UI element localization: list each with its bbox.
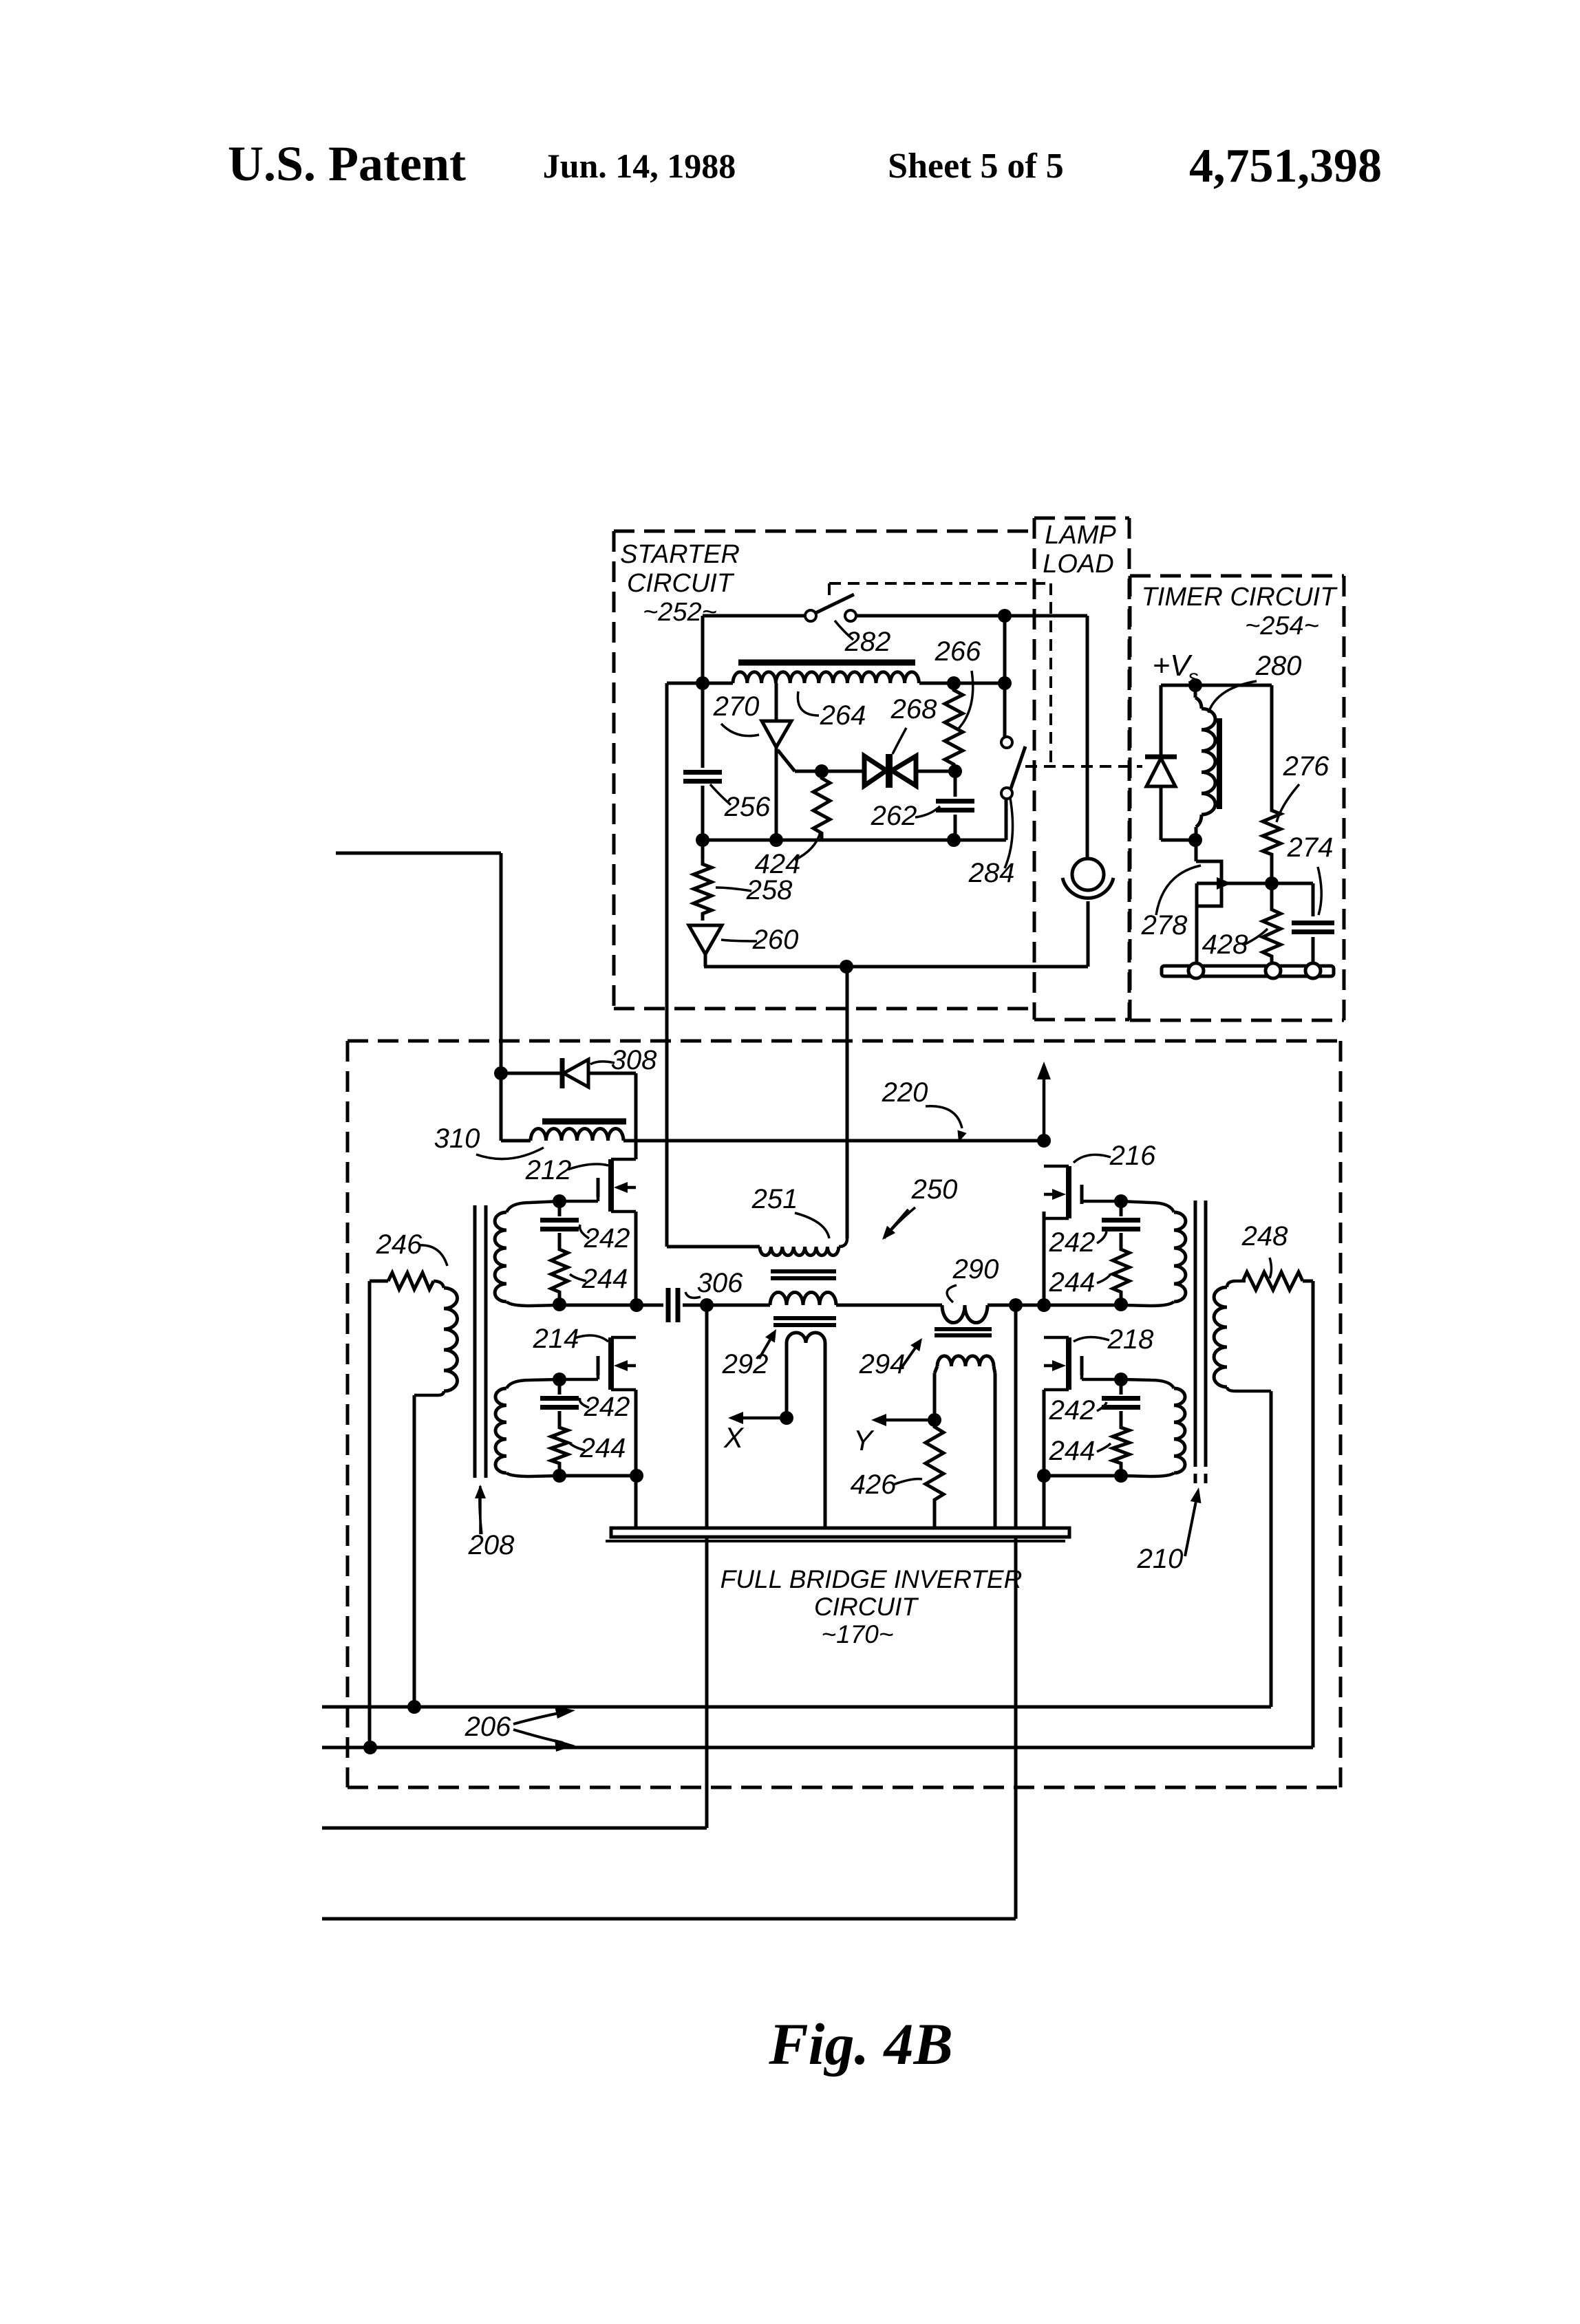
svg-text:STARTER: STARTER [620, 540, 740, 569]
svg-text:~254~: ~254~ [1245, 612, 1319, 641]
svg-text:310: 310 [434, 1123, 480, 1154]
svg-text:214: 214 [533, 1324, 579, 1354]
svg-text:250: 250 [911, 1174, 958, 1205]
svg-text:251: 251 [751, 1184, 798, 1214]
svg-text:~252~: ~252~ [643, 598, 717, 627]
svg-text:4,751,398: 4,751,398 [1189, 140, 1382, 193]
svg-text:258: 258 [746, 875, 793, 905]
svg-text:Fig. 4B: Fig. 4B [768, 2011, 953, 2077]
svg-text:FULL BRIDGE INVERTER: FULL BRIDGE INVERTER [720, 1565, 1023, 1593]
svg-text:+V: +V [1152, 649, 1193, 682]
svg-text:216: 216 [1109, 1141, 1156, 1171]
svg-text:264: 264 [820, 700, 866, 731]
svg-text:280: 280 [1255, 651, 1302, 681]
svg-text:Y: Y [853, 1424, 875, 1456]
svg-text:268: 268 [890, 694, 937, 724]
svg-text:212: 212 [525, 1155, 572, 1185]
svg-text:428: 428 [1202, 929, 1248, 960]
svg-text:210: 210 [1137, 1544, 1184, 1574]
svg-text:276: 276 [1283, 751, 1330, 782]
svg-text:CIRCUIT: CIRCUIT [814, 1593, 919, 1621]
svg-text:244: 244 [1049, 1267, 1096, 1298]
svg-text:278: 278 [1141, 910, 1188, 940]
svg-text:TIMER CIRCUIT: TIMER CIRCUIT [1142, 583, 1338, 612]
svg-text:256: 256 [724, 792, 771, 822]
svg-text:244: 244 [1049, 1436, 1096, 1466]
svg-text:242: 242 [584, 1223, 630, 1254]
svg-text:X: X [723, 1421, 745, 1454]
svg-text:246: 246 [376, 1229, 423, 1260]
svg-text:262: 262 [871, 801, 917, 831]
svg-text:290: 290 [952, 1254, 999, 1284]
svg-text:274: 274 [1287, 832, 1334, 863]
svg-text:244: 244 [581, 1264, 628, 1294]
svg-text:218: 218 [1107, 1324, 1154, 1355]
svg-text:282: 282 [844, 627, 891, 657]
svg-text:242: 242 [1049, 1227, 1096, 1258]
svg-text:LAMP: LAMP [1045, 521, 1116, 550]
svg-text:220: 220 [882, 1077, 928, 1108]
svg-text:248: 248 [1241, 1221, 1288, 1251]
svg-text:426: 426 [851, 1470, 897, 1500]
svg-text:Jun. 14, 1988: Jun. 14, 1988 [543, 147, 736, 185]
svg-text:260: 260 [752, 925, 799, 955]
svg-text:~170~: ~170~ [822, 1620, 894, 1648]
svg-text:308: 308 [611, 1045, 657, 1075]
svg-text:LOAD: LOAD [1043, 550, 1113, 579]
svg-text:U.S. Patent: U.S. Patent [228, 136, 466, 191]
svg-text:242: 242 [1049, 1395, 1096, 1425]
svg-text:206: 206 [465, 1712, 511, 1742]
svg-text:306: 306 [697, 1268, 743, 1298]
svg-text:CIRCUIT: CIRCUIT [627, 569, 735, 598]
svg-text:266: 266 [935, 636, 981, 667]
svg-text:244: 244 [579, 1433, 626, 1463]
svg-text:294: 294 [859, 1349, 906, 1379]
svg-text:Sheet 5 of 5: Sheet 5 of 5 [888, 147, 1064, 186]
svg-text:270: 270 [713, 691, 760, 722]
svg-text:242: 242 [584, 1392, 630, 1422]
svg-text:208: 208 [468, 1530, 515, 1560]
